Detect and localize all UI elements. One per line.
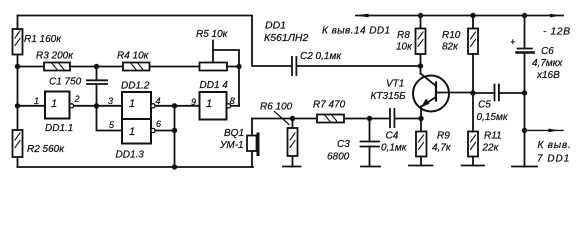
node R10 top junction xyxy=(470,13,475,18)
node C6 top junction xyxy=(522,13,527,18)
svg-text:х16В: х16В xyxy=(536,70,560,81)
svg-text:R11: R11 xyxy=(484,131,502,142)
arrow -12V xyxy=(550,14,561,18)
op-amp DD1.3 inverter box xyxy=(122,119,155,144)
node emitter junction xyxy=(418,116,423,121)
svg-text:К561ЛН2: К561ЛН2 xyxy=(264,32,308,44)
svg-text:1: 1 xyxy=(129,126,135,138)
svg-text:R10: R10 xyxy=(442,30,461,41)
svg-text:C5: C5 xyxy=(478,100,491,111)
node DD1.2 out junction xyxy=(172,103,177,108)
arrow to pin14 xyxy=(356,14,369,18)
wire DD1.4 output vertical xyxy=(238,67,240,107)
svg-text:1: 1 xyxy=(129,98,135,110)
node rail junction xyxy=(172,164,177,169)
wire main oscillator chain y=66.5 xyxy=(18,66,200,68)
svg-text:22к: 22к xyxy=(482,143,500,154)
node R10/C5 junction xyxy=(470,90,475,95)
svg-text:К выв.: К выв. xyxy=(538,140,572,151)
op-amp DD1.4 inverter box xyxy=(200,92,231,120)
svg-text:6: 6 xyxy=(156,119,161,129)
svg-text:+: + xyxy=(510,37,515,47)
wire DD1.2 output to DD1.4 input xyxy=(155,105,199,107)
ground bar under R9 xyxy=(409,165,433,167)
svg-text:- 12В: - 12В xyxy=(543,26,571,38)
svg-text:DD1.1: DD1.1 xyxy=(45,123,73,134)
buzzer BQ1 xyxy=(247,119,258,168)
svg-text:3: 3 xyxy=(108,96,113,106)
svg-text:R4 10к: R4 10к xyxy=(117,51,150,62)
resistor R4 xyxy=(123,63,150,71)
capacitor C3 xyxy=(361,119,380,167)
svg-text:0,1мк: 0,1мк xyxy=(381,143,408,154)
resistor R8 xyxy=(416,16,426,67)
wire bottom common rail xyxy=(18,166,254,168)
svg-text:R9: R9 xyxy=(437,131,450,142)
svg-text:C1 750: C1 750 xyxy=(49,77,82,88)
wire top-right power rail xyxy=(356,15,563,17)
svg-text:R5 10к: R5 10к xyxy=(196,29,229,40)
ground bar under R11 xyxy=(462,165,485,167)
svg-text:C2 0,1мк: C2 0,1мк xyxy=(300,51,342,62)
svg-text:R2 560к: R2 560к xyxy=(27,144,65,155)
ground bar under R6 xyxy=(283,166,301,168)
node R1-R3 junction xyxy=(15,64,20,69)
svg-text:9: 9 xyxy=(191,97,196,107)
node R8 top junction xyxy=(418,13,423,18)
wire left vertical bus xyxy=(17,16,19,168)
svg-text:1: 1 xyxy=(206,98,212,110)
svg-text:4,7к: 4,7к xyxy=(432,143,452,154)
wire top-left signal rail xyxy=(18,16,293,67)
resistor R1 xyxy=(13,29,23,55)
node C5 right junction xyxy=(522,90,527,95)
transistor VT1 xyxy=(413,66,473,119)
op-amp DD1.2 inverter box xyxy=(122,92,155,119)
resistor R10 xyxy=(468,16,478,94)
wire bottom signal line y=118.5 xyxy=(252,118,317,120)
svg-text:C3: C3 xyxy=(337,139,350,150)
node DD1.1 input junction xyxy=(15,103,20,108)
leader line R6 label xyxy=(275,112,290,125)
svg-text:10к: 10к xyxy=(396,42,413,53)
svg-text:7 DD1: 7 DD1 xyxy=(537,154,570,165)
resistor R11 xyxy=(468,93,478,166)
svg-text:R1 160к: R1 160к xyxy=(24,34,62,45)
svg-text:УМ-1: УМ-1 xyxy=(219,140,244,151)
wire DD1.4 output up xyxy=(231,105,239,107)
svg-text:DD1.3: DD1.3 xyxy=(116,150,145,161)
svg-text:VT1: VT1 xyxy=(386,79,404,90)
wire outputs to common rail xyxy=(174,106,176,167)
svg-text:C4: C4 xyxy=(386,131,399,142)
node R6 junction xyxy=(290,116,295,121)
svg-text:4: 4 xyxy=(156,96,161,106)
svg-text:КТ315Б: КТ315Б xyxy=(371,91,407,102)
op-amp DD1.1 inverter box xyxy=(45,92,74,119)
wire output arrow to pin 7 xyxy=(525,129,564,131)
svg-text:R7 470: R7 470 xyxy=(313,100,346,111)
ground bar right xyxy=(512,166,537,168)
wire R5 tap xyxy=(212,41,214,63)
svg-text:DD1 4: DD1 4 xyxy=(200,80,229,91)
svg-text:6800: 6800 xyxy=(327,152,350,163)
svg-text:1: 1 xyxy=(51,98,57,110)
svg-text:DD1: DD1 xyxy=(265,20,286,32)
svg-text:BQ1: BQ1 xyxy=(224,128,244,139)
capacitor C4 xyxy=(390,109,394,127)
capacitor C1 xyxy=(87,67,107,107)
svg-text:4,7мкх: 4,7мкх xyxy=(532,58,563,69)
node DD1.3 out junction xyxy=(172,128,177,133)
wire DD1.1 output xyxy=(74,105,122,107)
svg-text:82к: 82к xyxy=(442,42,459,53)
capacitor C2 xyxy=(292,57,421,75)
node output junction xyxy=(522,128,527,133)
svg-text:1: 1 xyxy=(34,96,39,106)
wire DD1.3 input jog xyxy=(97,106,123,131)
resistor R7 xyxy=(317,115,344,123)
capacitor C5 xyxy=(473,85,525,101)
resistor R9 xyxy=(416,119,427,166)
svg-text:R3 200к: R3 200к xyxy=(36,51,74,62)
resistor R3 xyxy=(44,63,70,71)
node R3-R4-C1 junction xyxy=(94,64,99,69)
svg-text:2: 2 xyxy=(74,94,80,104)
resistor R2 xyxy=(13,130,23,157)
node DD1.4 output junction xyxy=(236,64,241,69)
svg-text:DD1.2: DD1.2 xyxy=(121,81,150,92)
node C1/DD1.3 branch junction xyxy=(94,103,99,108)
svg-text:К выв.14 DD1: К выв.14 DD1 xyxy=(322,26,391,37)
resistor R5 xyxy=(200,63,240,71)
node C3 junction xyxy=(367,116,372,121)
ground bar under C3 xyxy=(361,166,380,168)
svg-text:8: 8 xyxy=(230,96,235,106)
wire DD1.3 output xyxy=(155,130,174,132)
resistor R6 xyxy=(288,119,298,167)
capacitor C6 electrolytic xyxy=(517,16,534,167)
svg-text:R8: R8 xyxy=(397,30,410,41)
node collector/base junction xyxy=(418,63,423,68)
svg-text:0,15мк: 0,15мк xyxy=(477,112,509,123)
svg-text:C6: C6 xyxy=(541,46,554,57)
svg-text:R6 100: R6 100 xyxy=(260,102,293,113)
wire DD1.1 input xyxy=(18,105,46,107)
